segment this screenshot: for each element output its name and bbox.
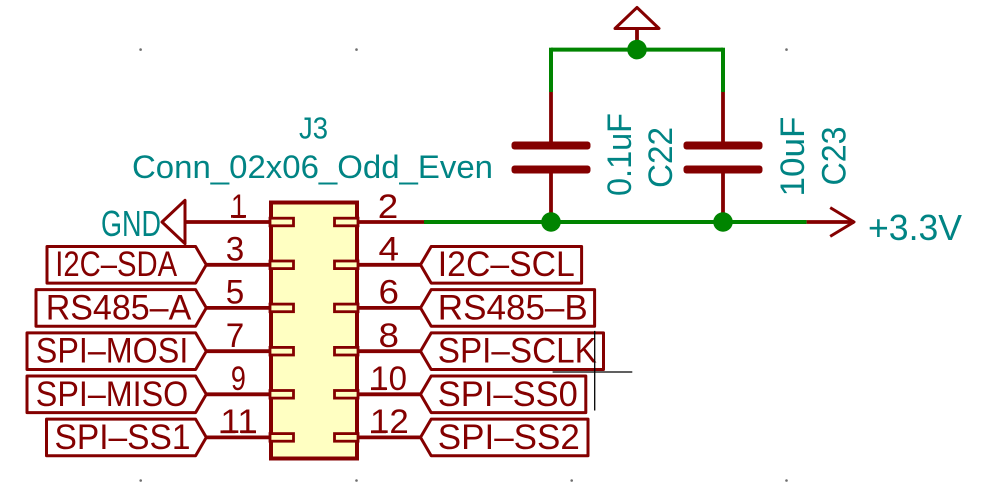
svg-text:SPI–MOSI: SPI–MOSI <box>36 332 189 371</box>
svg-text:10uF: 10uF <box>774 117 812 197</box>
grid dot (571.7,480.5) <box>570 479 573 482</box>
connector J3 reference label <box>299 111 328 146</box>
svg-text:I2C–SDA: I2C–SDA <box>55 245 178 284</box>
svg-text:SPI–SCLK: SPI–SCLK <box>438 332 597 371</box>
pin 4 <box>335 261 421 269</box>
power symbol (unlabeled triangle, top) <box>615 8 659 51</box>
global label I2C-SCL <box>421 245 582 284</box>
global label I2C-SDA <box>47 245 206 284</box>
pin number 5 <box>226 274 245 312</box>
pin 3 <box>206 261 294 269</box>
svg-text:I2C–SCL: I2C–SCL <box>438 245 575 284</box>
svg-text:C23: C23 <box>816 127 854 186</box>
svg-text:3: 3 <box>226 231 245 269</box>
junction C22 rail <box>541 212 561 232</box>
pin number 10 <box>370 360 407 398</box>
capacitor C23 <box>684 92 763 222</box>
capacitor C23 value 10uF <box>774 117 812 197</box>
svg-text:SPI–MISO: SPI–MISO <box>36 375 189 414</box>
capacitor C22 reference C22 <box>642 127 680 188</box>
svg-text:SPI–SS1: SPI–SS1 <box>55 418 191 457</box>
pin 5 <box>206 304 294 312</box>
pin number 8 <box>379 317 400 355</box>
connector J3 body <box>271 203 357 459</box>
wire C23 top <box>721 48 725 92</box>
grid dot (140.6,49.6) <box>139 48 142 51</box>
wire pin2 to +3.3V rail <box>424 220 807 224</box>
pin 10 <box>335 391 421 399</box>
svg-text:GND: GND <box>101 203 161 244</box>
pin number 1 <box>231 188 246 226</box>
svg-text:6: 6 <box>379 274 400 312</box>
svg-text:0.1uF: 0.1uF <box>601 113 639 196</box>
svg-text:+3.3V: +3.3V <box>868 207 962 248</box>
grid dot (356.5,49.6) <box>355 48 358 51</box>
grid dot (786.5,480.5) <box>785 479 788 482</box>
wire C22 top <box>549 48 553 92</box>
global label SPI-MISO <box>27 375 206 414</box>
global label RS485-A <box>36 288 206 327</box>
pin 12 <box>335 434 421 442</box>
svg-text:RS485–A: RS485–A <box>46 288 192 327</box>
capacitor C23 reference C23 <box>816 127 854 186</box>
svg-text:C22: C22 <box>642 127 680 188</box>
junction C23 rail <box>713 212 733 232</box>
pin 1 <box>185 218 294 226</box>
pin number 11 <box>220 403 257 441</box>
svg-text:11: 11 <box>220 403 257 441</box>
svg-text:5: 5 <box>226 274 245 312</box>
pin number 4 <box>379 231 400 269</box>
pin number 7 <box>226 317 245 355</box>
junction top <box>627 40 647 60</box>
svg-text:Conn_02x06_Odd_Even: Conn_02x06_Odd_Even <box>132 149 493 185</box>
global label SPI-SS2 <box>421 418 589 457</box>
global label SPI-SCLK <box>421 332 604 371</box>
pin 8 <box>335 347 421 355</box>
pin 7 <box>206 347 294 355</box>
capacitor C22 <box>512 92 591 222</box>
svg-text:4: 4 <box>379 231 400 269</box>
svg-text:10: 10 <box>370 360 407 398</box>
connector J3 value Conn_02x06_Odd_Even <box>132 149 493 185</box>
pin 11 <box>206 434 294 442</box>
grid dot (140.7,480.5) <box>139 479 142 482</box>
svg-text:12: 12 <box>370 403 409 441</box>
global label SPI-SS1 <box>47 418 207 457</box>
pin 9 <box>206 391 294 399</box>
power symbol +3.3V right <box>807 207 962 248</box>
global label SPI-SS0 <box>421 375 586 414</box>
global label SPI-MOSI <box>27 332 206 371</box>
svg-text:1: 1 <box>231 188 246 226</box>
pin number 2 <box>378 188 399 226</box>
svg-text:SPI–SS0: SPI–SS0 <box>438 375 578 414</box>
svg-text:9: 9 <box>231 360 246 398</box>
svg-text:RS485–B: RS485–B <box>438 288 588 327</box>
svg-text:8: 8 <box>379 317 400 355</box>
pin number 6 <box>379 274 400 312</box>
wire top bus C22 to C23 <box>551 48 723 52</box>
svg-text:J3: J3 <box>299 111 328 146</box>
pin 2 <box>335 218 425 226</box>
pin number 12 <box>370 403 409 441</box>
grid dot (786.5,49.6) <box>785 48 788 51</box>
global label RS485-B <box>421 288 595 327</box>
pin number 3 <box>226 231 245 269</box>
pin number 9 <box>231 360 246 398</box>
capacitor C22 value 0.1uF <box>601 113 639 196</box>
pin 6 <box>335 304 421 312</box>
svg-text:SPI–SS2: SPI–SS2 <box>438 418 580 457</box>
svg-text:2: 2 <box>378 188 399 226</box>
cursor crosshair <box>553 331 633 411</box>
svg-text:7: 7 <box>226 317 245 355</box>
grid dot (356.5,480.5) <box>355 479 358 482</box>
power symbol GND <box>101 200 185 244</box>
